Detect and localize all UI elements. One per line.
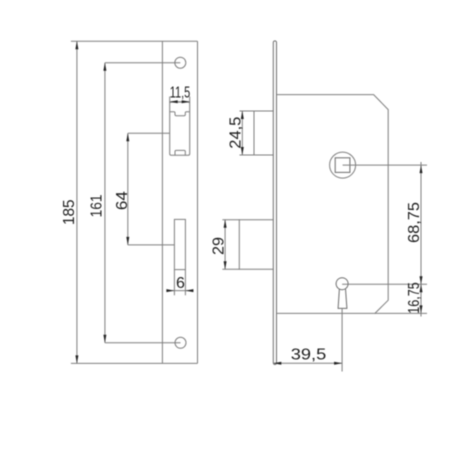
svg-text:68,75: 68,75 bbox=[406, 202, 423, 243]
keyhole leader bbox=[342, 283, 427, 285]
svg-text:29: 29 bbox=[211, 237, 228, 255]
arrow 68,75 bottom bbox=[420, 276, 423, 284]
arrow 29 bottom bbox=[224, 261, 227, 269]
arrow 64 top bbox=[126, 133, 129, 141]
dimension 29 line bbox=[224, 220, 226, 270]
faceplate front view left edge bbox=[161, 41, 163, 363]
dimension 6 left extension bbox=[173, 270, 175, 296]
dimension 24,5 bottom extension bbox=[240, 154, 255, 156]
latch cutout top step bbox=[170, 112, 190, 116]
arrow 39,5 right bbox=[334, 362, 342, 365]
latch cutout outer rectangle bbox=[170, 102, 190, 155]
dimension 64 top leader bbox=[128, 132, 170, 134]
arrow 39,5 left bbox=[273, 362, 281, 365]
faceplate front view bottom edge + 185 extension bbox=[71, 362, 198, 364]
latch bolt side view bbox=[254, 111, 273, 155]
follower circle bbox=[330, 152, 356, 178]
keyhole stem bbox=[338, 289, 347, 309]
follower leader bbox=[343, 164, 427, 166]
latch cutout bottom step bbox=[175, 150, 185, 155]
dimension 64 bottom leader bbox=[128, 244, 175, 246]
svg-text:16,75: 16,75 bbox=[406, 282, 423, 314]
arrow 16,75 bottom bbox=[420, 305, 423, 313]
svg-text:161: 161 bbox=[88, 194, 105, 217]
arrow 29 top bbox=[224, 220, 227, 228]
side view mounting plate bbox=[273, 41, 276, 365]
follower square bbox=[335, 158, 350, 173]
arrow 11,5 right bbox=[182, 100, 190, 103]
svg-text:6: 6 bbox=[176, 275, 185, 292]
arrow 161 bottom bbox=[103, 335, 106, 343]
faceplate front view right edge bbox=[197, 41, 199, 363]
dimension 64 line bbox=[127, 133, 129, 245]
arrow 185 top bbox=[75, 41, 78, 49]
dimension 161 top leader bbox=[105, 62, 180, 64]
bottom screw hole bbox=[175, 337, 186, 348]
arrow 68,75 top bbox=[420, 165, 423, 173]
dimension 11,5 left tick bbox=[169, 97, 171, 104]
svg-text:39,5: 39,5 bbox=[291, 347, 327, 364]
arrow 64 bottom bbox=[126, 237, 129, 245]
dimension 29 top extension bbox=[222, 219, 239, 221]
svg-text:185: 185 bbox=[61, 199, 78, 225]
dimension 11,5 right tick bbox=[189, 97, 191, 104]
keyhole axis extension bbox=[341, 308, 343, 371]
dimension 6 right extension bbox=[184, 270, 186, 296]
arrow 11,5 left bbox=[170, 100, 178, 103]
top screw hole bbox=[175, 57, 186, 68]
case bottom extension line bbox=[375, 312, 427, 314]
dimension 68,75 and 16,75 line bbox=[420, 162, 422, 317]
faceplate front view top edge + 185 extension bbox=[71, 40, 198, 42]
arrow 24,5 top bbox=[241, 111, 244, 119]
arrow 6 left bbox=[166, 289, 174, 292]
lock case outline bbox=[277, 95, 389, 314]
arrow 161 top bbox=[103, 63, 106, 71]
dimension 24,5 top extension bbox=[240, 110, 255, 112]
deadbolt side view bbox=[239, 220, 273, 270]
dimension 6 line bbox=[166, 290, 193, 292]
svg-text:64: 64 bbox=[114, 191, 131, 210]
dimension 185 line bbox=[76, 41, 78, 363]
dimension 161 line bbox=[104, 63, 106, 343]
arrow 6 right bbox=[185, 289, 193, 292]
dimension 11,5 line bbox=[170, 101, 190, 103]
dimension 161 bottom leader bbox=[105, 342, 181, 344]
arrow 24,5 bottom bbox=[241, 147, 244, 155]
dimension 29 bottom extension bbox=[222, 268, 239, 270]
deadbolt cutout rectangle bbox=[174, 219, 185, 269]
arrow 16,75 top bbox=[420, 284, 423, 292]
dimension 39,5 line bbox=[273, 362, 342, 364]
keyhole circle bbox=[336, 278, 348, 290]
dimension 24,5 line bbox=[241, 111, 243, 155]
arrow 185 bottom bbox=[75, 355, 78, 363]
svg-text:11,5: 11,5 bbox=[170, 85, 191, 102]
svg-text:24,5: 24,5 bbox=[228, 117, 245, 149]
